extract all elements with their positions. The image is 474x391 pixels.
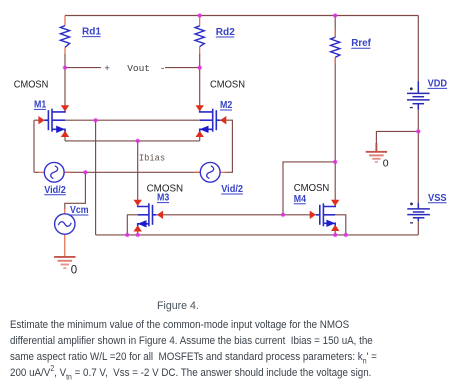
ground 0 right — [366, 143, 387, 162]
wire M1 source drop — [64, 129, 66, 141]
svg-text:Ibias: Ibias — [139, 153, 165, 163]
source Vid/2 left (VSIN) — [44, 162, 64, 182]
wire Rref lead stub top — [334, 30, 336, 37]
label Rref — [351, 38, 371, 49]
wire ground branch to right rail — [376, 131, 418, 151]
wire bulk rail M1-M2 — [65, 119, 200, 121]
node + Vout - labels — [104, 63, 165, 74]
resistor Rd1 — [60, 26, 69, 48]
transistor M4 gate pin arrow — [310, 211, 316, 219]
transistor M1 (CMOSN) — [44, 109, 65, 133]
wire Rd2 bottom lead — [199, 47, 201, 55]
transistor M1 source pin arrow — [61, 131, 69, 137]
transistor M2 drain pin arrow — [196, 105, 204, 111]
wire M1 gate lead — [34, 119, 44, 121]
node junction Vcm tap — [83, 170, 88, 175]
problem statement paragraph — [10, 317, 474, 381]
node junction M3 bulk — [125, 232, 130, 237]
wire Vcm top lead stub — [64, 209, 66, 214]
wire Vid/2 right right lead stub — [220, 171, 226, 173]
wire Vcm branch — [65, 172, 86, 209]
wire right rail upper (top rail to VDD+) — [417, 16, 419, 82]
battery VDD plus marker — [410, 87, 413, 90]
svg-text:Rd1: Rd1 — [82, 26, 101, 37]
transistor M3 gate pin arrow — [157, 211, 163, 219]
wire M2 drain — [199, 68, 201, 106]
wire Rd2 top lead — [199, 16, 201, 26]
svg-text:M3: M3 — [157, 193, 170, 204]
wire Vid/2 left right lead stub — [64, 171, 70, 173]
node junction Vout left — [62, 65, 67, 70]
wire M2 gate to Vid/2 right — [220, 120, 232, 172]
label M2 — [220, 100, 233, 111]
transistor M2 source pin arrow — [196, 131, 204, 137]
resistor Rd2 — [195, 26, 204, 47]
wire tail to M3 drain — [137, 141, 139, 201]
battery VDD minus marker — [410, 107, 413, 108]
svg-text:Vout: Vout — [127, 63, 150, 74]
transistor M2 gate pin arrow — [220, 116, 226, 124]
svg-text:Vcm: Vcm — [70, 205, 89, 216]
wire Vid/2 left source lead stub — [39, 171, 45, 173]
wire M3 source drop — [137, 224, 139, 235]
label Rd1 — [82, 26, 101, 37]
node junction M3 source — [135, 232, 140, 237]
wire Vout rail left segment — [65, 67, 101, 69]
wire Rref column to M4 drain — [334, 58, 336, 201]
resistor Rref — [331, 37, 340, 57]
label Vid/2 right — [221, 184, 243, 195]
node junction bulk rail — [93, 118, 98, 123]
wire Rd1 bottom lead — [64, 47, 66, 55]
svg-text:Rref: Rref — [351, 38, 371, 49]
node junction M4 source — [333, 232, 338, 237]
node junction M4 bulk — [343, 232, 348, 237]
transistor M4 (CMOSN) — [316, 203, 336, 227]
svg-text:VSS: VSS — [428, 193, 447, 204]
battery VSS minus marker — [410, 222, 413, 223]
wire Vid/2 right left lead stub — [195, 171, 201, 173]
wire Rd2 to Vout node — [199, 54, 201, 68]
battery VSS (VDC) — [407, 203, 430, 221]
svg-text:0: 0 — [71, 265, 77, 277]
svg-text:CMOSN: CMOSN — [294, 183, 330, 194]
wire Rref top lead — [334, 16, 336, 38]
node junction ground right rail — [416, 129, 421, 134]
transistor M3 drain pin arrow — [134, 200, 142, 206]
transistor M3 bulk-source arrow — [138, 220, 147, 227]
svg-text:Vid/2: Vid/2 — [221, 184, 243, 195]
transistor M1 gate pin arrow — [38, 116, 44, 124]
transistor M1 drain pin arrow — [61, 105, 69, 111]
wire M4 source drop — [334, 223, 336, 235]
wire Rd1 top lead — [64, 16, 66, 26]
wire Rref lead stub bottom — [334, 57, 336, 64]
battery VDD (VDC) — [407, 81, 430, 110]
svg-text:Vid/2: Vid/2 — [44, 185, 66, 196]
svg-text:CMOSN: CMOSN — [14, 79, 49, 90]
transistor M2 bulk-source arrow — [200, 126, 209, 133]
svg-text:CMOSN: CMOSN — [210, 80, 245, 91]
svg-text:M1: M1 — [34, 99, 47, 110]
transistor M1 bulk-source arrow — [56, 126, 65, 133]
transistor M3 (CMOSN mirrored) — [138, 203, 157, 227]
source Vid/2 right (VSIN) — [200, 162, 220, 182]
svg-text:0: 0 — [383, 158, 389, 170]
node junction Vout right — [197, 65, 202, 70]
wire M2 source drop — [199, 129, 201, 141]
wire top rail VDD net — [65, 15, 418, 17]
wire right rail lower (VSS- to bottom rail) — [417, 221, 419, 235]
wire M4 bulk link to VSS rail — [335, 215, 346, 235]
transistor M4 source pin arrow — [331, 225, 339, 231]
label Rd2 — [216, 27, 235, 38]
transistor M4 bulk-source arrow — [326, 220, 335, 227]
source Vcm (VSIN) — [55, 214, 75, 234]
battery VSS plus marker — [410, 203, 413, 206]
wire Vid/2 left source left lead — [34, 171, 39, 173]
wire bulk drop to VSS rail — [95, 120, 97, 235]
wire diode connection M4 drain-gate — [283, 162, 335, 215]
wire M1 gate drop — [33, 120, 35, 172]
label Vcm — [70, 205, 89, 216]
label Vid/2 left — [44, 185, 66, 196]
wire bottom rail VSS net — [96, 234, 419, 236]
label VDD — [428, 78, 448, 89]
node junction gate rail — [280, 212, 285, 217]
wire M3 gate to M4 gate rail — [157, 214, 310, 216]
node junction tail — [135, 138, 140, 143]
wire Vcm bottom lead — [64, 234, 66, 257]
node junction top Rref — [333, 13, 338, 18]
svg-text:+: + — [104, 63, 110, 74]
svg-text:-: - — [160, 63, 166, 74]
label M1 — [34, 99, 47, 110]
transistor M4 drain pin arrow — [331, 200, 339, 206]
svg-text:Rd2: Rd2 — [216, 27, 235, 38]
ground 0 under Vcm — [54, 257, 75, 268]
transistor M3 source pin arrow — [134, 225, 142, 231]
wire M1 drain — [64, 68, 66, 106]
label VSS — [428, 193, 447, 204]
svg-text:M2: M2 — [220, 100, 233, 111]
transistor M2 (CMOSN mirrored) — [200, 109, 221, 133]
wire source rail (tail net) — [65, 140, 200, 142]
wire Rd1 to Vout node — [64, 54, 66, 68]
node junction Rref diode — [333, 159, 338, 164]
label M4 — [294, 194, 307, 205]
wire Vout rail right segment — [165, 67, 200, 69]
wire M3 bulk link to VSS rail — [127, 215, 137, 235]
wire right rail middle (VDD- to VSS+) — [417, 110, 419, 203]
caption Figure 4 — [157, 300, 199, 312]
svg-text:VDD: VDD — [428, 78, 447, 89]
label M3 — [157, 193, 170, 204]
node junction top Rd2 — [197, 13, 202, 18]
wire input common rail (Vid/2 to Vid/2) — [64, 171, 200, 173]
svg-text:M4: M4 — [294, 194, 307, 205]
